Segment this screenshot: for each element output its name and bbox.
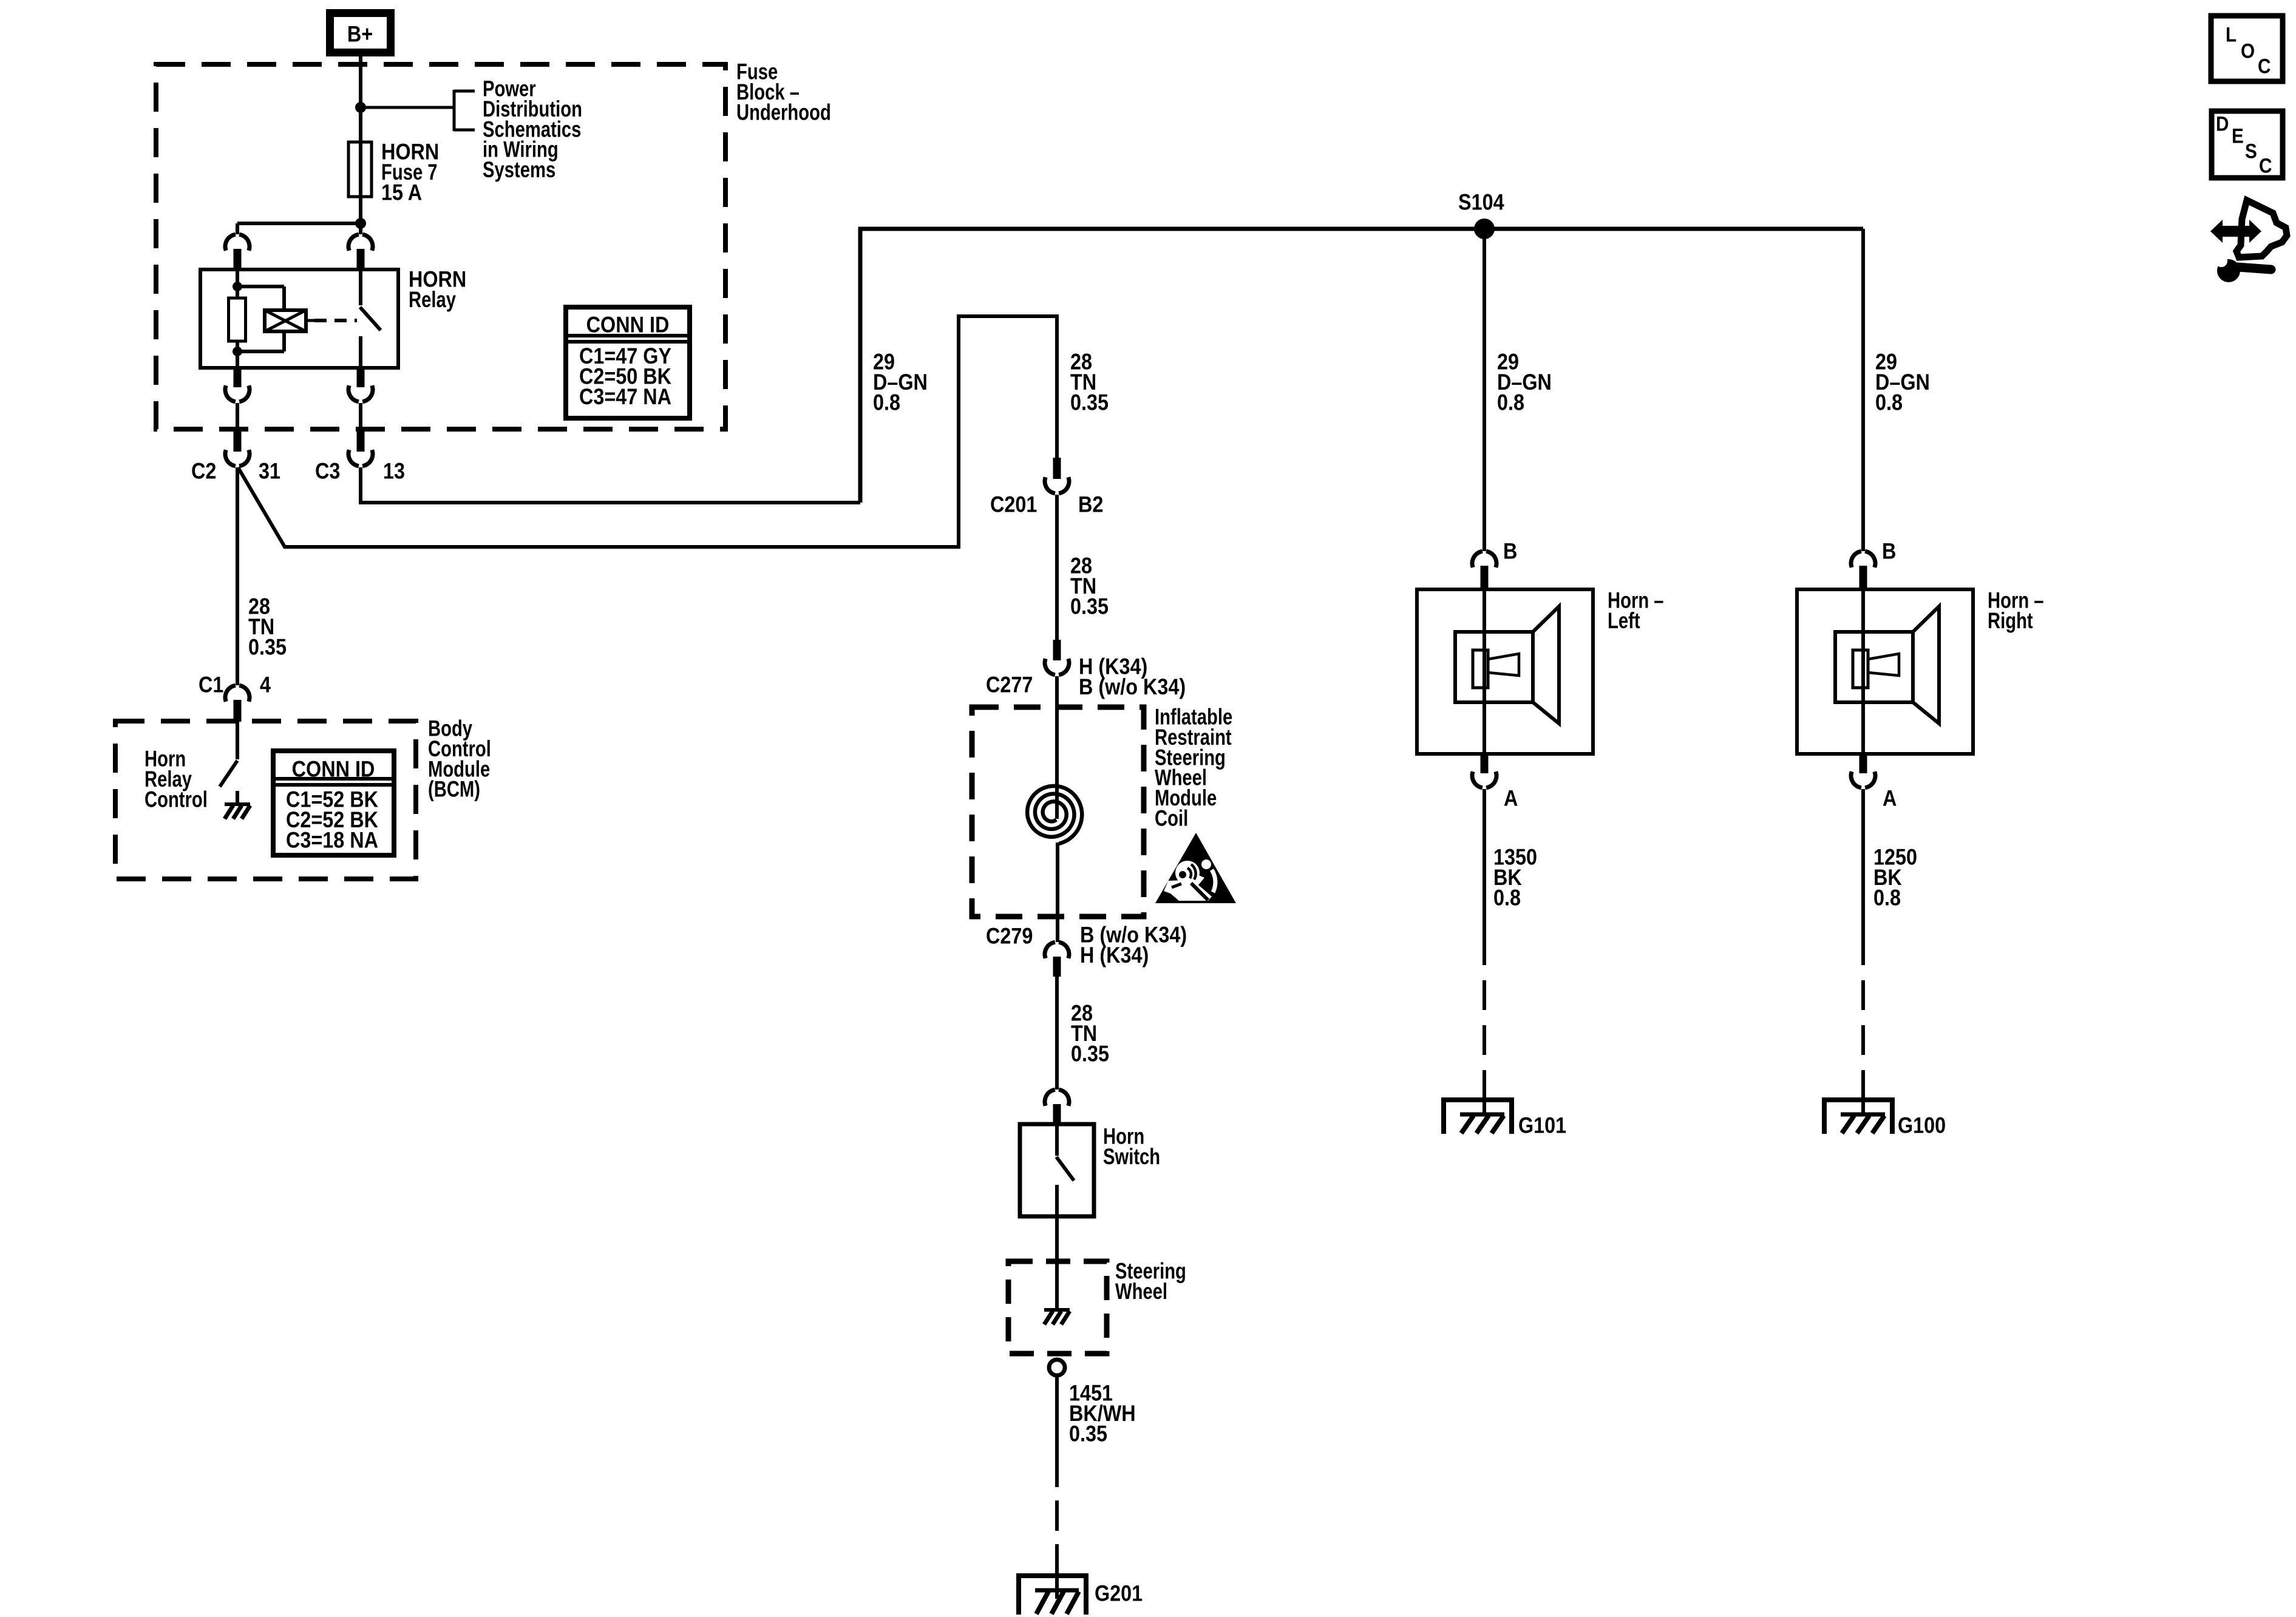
wire junction to relay coil branch xyxy=(237,223,361,234)
svg-text:G201: G201 xyxy=(1095,1582,1143,1606)
label C277 xyxy=(986,673,1033,697)
label Fuse Block - Underhood xyxy=(736,59,831,125)
icon wrench xyxy=(2215,255,2271,282)
label C3 xyxy=(315,459,340,484)
label pin A horn left xyxy=(1504,787,1518,811)
svg-text:B (w/o K34): B (w/o K34) xyxy=(1079,675,1186,699)
icon pointing glove outline xyxy=(2237,200,2287,257)
wire label 28 TN 0.35 (to horn switch) xyxy=(1071,1002,1109,1066)
svg-text:0.35: 0.35 xyxy=(248,635,287,659)
wire 1350 dashed to G101 xyxy=(1483,935,1486,1116)
junction node on B+ feed xyxy=(355,102,366,113)
svg-text:D: D xyxy=(2216,112,2229,135)
svg-text:G100: G100 xyxy=(1898,1114,1946,1138)
connector C277 xyxy=(1045,640,1069,675)
label pin B horn right xyxy=(1882,540,1896,564)
horn switch wire upper xyxy=(1055,1124,1059,1156)
svg-text:0.8: 0.8 xyxy=(1875,390,1903,415)
wire 1350 BK solid xyxy=(1483,789,1486,935)
horn switch wire lower xyxy=(1055,1185,1059,1309)
power distribution reference bracket xyxy=(454,90,475,131)
svg-text:B: B xyxy=(1882,540,1896,564)
wire C279 to horn switch xyxy=(1055,977,1059,1090)
label pin 31 xyxy=(259,459,280,484)
wire through horn left xyxy=(1483,589,1486,754)
svg-text:0.35: 0.35 xyxy=(1070,390,1109,415)
wire C201 to C277 xyxy=(1055,495,1059,640)
module inflatable restraint coil dashed box xyxy=(972,707,1144,917)
svg-text:E: E xyxy=(2232,124,2244,147)
svg-text:Wheel: Wheel xyxy=(1115,1280,1167,1304)
svg-text:S104: S104 xyxy=(1458,191,1504,215)
label pin 4 xyxy=(260,673,271,697)
wire label 28 TN 0.35 (to C201) xyxy=(1070,350,1109,415)
svg-text:C2: C2 xyxy=(191,459,216,484)
relay actuator dashed link xyxy=(314,319,357,322)
svg-text:0.8: 0.8 xyxy=(1497,390,1524,415)
icon double arrow xyxy=(2210,220,2261,243)
speaker symbol horn left xyxy=(1455,606,1559,724)
ground G201 xyxy=(1019,1576,1086,1615)
svg-text:L: L xyxy=(2226,22,2237,46)
wire label 29 D-GN 0.8 (riser) xyxy=(873,350,928,415)
connector horn right pin B xyxy=(1851,551,1875,590)
wire label 1250 BK 0.8 xyxy=(1873,846,1917,910)
label Power Distribution Schematics in Wiring Systems xyxy=(483,76,582,183)
connector C2 pin 31 xyxy=(225,431,250,466)
connector horn left pin B xyxy=(1472,551,1496,590)
connector C1 pin 4 xyxy=(225,685,250,722)
wire relay coil out to C2 xyxy=(236,403,239,431)
svg-text:B2: B2 xyxy=(1078,493,1103,517)
wire B+ down to fuse and relay arc xyxy=(359,56,362,234)
connector C279 xyxy=(1045,942,1069,977)
svg-text:Underhood: Underhood xyxy=(736,100,831,125)
terminal steering wheel splice circle xyxy=(1049,1360,1065,1375)
label pin B horn left xyxy=(1503,540,1517,564)
svg-text:0.8: 0.8 xyxy=(1493,886,1521,910)
svg-text:13: 13 xyxy=(383,459,405,484)
label pin A horn right xyxy=(1883,787,1897,811)
wire riser to main feed run xyxy=(860,229,1863,503)
label Horn Relay Control xyxy=(144,747,208,812)
svg-text:Systems: Systems xyxy=(483,158,555,183)
connector horn right pin A xyxy=(1851,754,1875,788)
label Horn - Left xyxy=(1608,588,1664,633)
label C279 xyxy=(986,924,1033,949)
ground BCM internal xyxy=(225,791,250,819)
label C1 xyxy=(199,673,223,697)
relay coil element xyxy=(265,310,306,331)
svg-text:B: B xyxy=(1503,540,1517,564)
svg-text:Switch: Switch xyxy=(1103,1145,1160,1170)
svg-text:C3=18 NA: C3=18 NA xyxy=(286,828,378,852)
svg-text:C: C xyxy=(2258,54,2271,77)
svg-text:C279: C279 xyxy=(986,924,1033,949)
junction node below fuse xyxy=(355,218,366,229)
svg-text:O: O xyxy=(2241,39,2255,62)
relay coil wire lower xyxy=(236,341,239,368)
svg-text:C3=47 NA: C3=47 NA xyxy=(579,385,671,409)
label Horn - Right xyxy=(1988,588,2044,633)
label G100 xyxy=(1898,1114,1946,1138)
label HORN Relay xyxy=(409,268,466,313)
relay coil actuator stub xyxy=(306,319,314,322)
connector relay coil bottom terminal xyxy=(225,368,250,402)
fuse HORN Fuse 7 15 A xyxy=(348,142,372,197)
svg-text:G101: G101 xyxy=(1518,1114,1566,1138)
power node B+ box xyxy=(330,13,391,53)
junction node relay coil bottom xyxy=(233,347,242,356)
label S104 xyxy=(1458,191,1504,215)
label G201 xyxy=(1095,1582,1143,1606)
speaker driver horn left xyxy=(1473,650,1488,688)
wire S104 down to horn left xyxy=(1483,229,1486,551)
label Steering Wheel xyxy=(1115,1259,1186,1304)
module BCM dashed box xyxy=(115,721,416,879)
label Inflatable Restraint Steering Wheel Module Coil xyxy=(1155,705,1232,831)
wire to power distribution reference xyxy=(361,106,454,109)
wire label 1451 BK/WH 0.35 xyxy=(1069,1381,1136,1446)
svg-text:C201: C201 xyxy=(990,493,1037,517)
relay switch fixed contact upper xyxy=(359,269,362,305)
wire label 29 D-GN 0.8 (horn right) xyxy=(1875,350,1930,415)
resistor relay suppression resistor xyxy=(229,298,246,341)
wire BCM internal upper xyxy=(236,722,239,759)
svg-text:C277: C277 xyxy=(986,673,1033,697)
speaker symbol horn right xyxy=(1835,606,1939,724)
wire relay switch out to C3 xyxy=(359,403,362,431)
svg-text:C3: C3 xyxy=(315,459,340,484)
label C2 xyxy=(191,459,216,484)
label Horn Switch xyxy=(1103,1124,1160,1169)
speaker small horn left xyxy=(1488,654,1519,676)
horn switch blade xyxy=(1056,1157,1074,1181)
svg-text:0.35: 0.35 xyxy=(1071,1042,1109,1066)
warning icon SIR triangle xyxy=(1155,833,1236,903)
connector horn left pin A xyxy=(1472,754,1496,788)
conn-id table fuse block xyxy=(566,307,690,418)
svg-text:15 A: 15 A xyxy=(381,180,422,205)
wire 28 TN 0.35 label (relay control) xyxy=(248,595,287,660)
speaker small horn right xyxy=(1868,654,1899,676)
horn right box xyxy=(1797,589,1973,754)
svg-text:Left: Left xyxy=(1608,609,1640,634)
svg-text:0.35: 0.35 xyxy=(1070,594,1109,619)
relay switch blade xyxy=(360,307,381,330)
wire 1451 solid segment xyxy=(1055,1375,1059,1457)
svg-text:Relay: Relay xyxy=(409,288,456,313)
connector relay switch terminal (top right) xyxy=(348,234,373,270)
connector relay switch bottom terminal xyxy=(348,368,373,402)
svg-text:B+: B+ xyxy=(347,22,373,47)
wire relay coil branch xyxy=(237,286,284,351)
relay HORN Relay box xyxy=(200,269,398,368)
label C279 pins B (w/o K34) H (K34) xyxy=(1080,923,1187,968)
icon DESC box xyxy=(2212,111,2283,178)
connector C3 pin 13 xyxy=(348,431,373,466)
label C201 xyxy=(990,493,1037,517)
label G101 xyxy=(1518,1114,1566,1138)
ground steering wheel internal xyxy=(1044,1310,1070,1324)
svg-text:4: 4 xyxy=(260,673,271,697)
fuse block underhood dashed box xyxy=(156,64,725,429)
svg-text:C1: C1 xyxy=(199,673,223,697)
svg-text:S: S xyxy=(2245,139,2257,162)
wire C277 into coil xyxy=(1055,676,1059,819)
wire into G201 xyxy=(1055,1554,1059,1599)
wire 1250 dashed to G100 xyxy=(1861,935,1865,1116)
ground G101 xyxy=(1444,1100,1512,1134)
connector relay coil terminal (top left) xyxy=(225,234,250,270)
svg-text:Coil: Coil xyxy=(1155,806,1188,831)
ground G100 xyxy=(1824,1100,1892,1134)
svg-text:0.8: 0.8 xyxy=(873,390,900,415)
horn left box xyxy=(1417,589,1593,754)
svg-text:A: A xyxy=(1883,787,1897,811)
wire through horn right xyxy=(1861,589,1865,754)
conn-id table BCM xyxy=(273,751,394,855)
label Body Control Module (BCM) xyxy=(428,716,491,802)
label pin 13 xyxy=(383,459,405,484)
connector C201 pin B2 xyxy=(1045,458,1069,493)
switch horn relay control driver blade xyxy=(220,761,237,787)
wire label 28 TN 0.35 (C201-C277) xyxy=(1070,554,1109,619)
wire C2 to C1 vertical xyxy=(236,467,239,685)
wire coil out to C279 xyxy=(1056,842,1059,942)
wire label 29 D-GN 0.8 (horn left) xyxy=(1497,350,1552,415)
svg-text:0.8: 0.8 xyxy=(1873,886,1901,910)
svg-text:Control: Control xyxy=(144,787,208,812)
svg-text:A: A xyxy=(1504,787,1518,811)
splice node S104 xyxy=(1474,219,1495,239)
label HORN Fuse 7 15 A xyxy=(381,140,439,205)
speaker driver horn right xyxy=(1853,650,1868,688)
wire 1451 dashed segment xyxy=(1055,1457,1059,1573)
wire 1250 BK solid xyxy=(1861,789,1865,935)
label C277 pins H (K34) B (w/o K34) xyxy=(1079,655,1186,700)
wire C3 down and right to riser xyxy=(361,467,860,503)
steering wheel dashed box xyxy=(1008,1261,1107,1354)
inductor steering wheel coil spiral xyxy=(1027,786,1082,844)
svg-text:H (K34): H (K34) xyxy=(1080,943,1149,968)
label pin B2 xyxy=(1078,493,1103,517)
wire label 1350 BK 0.8 xyxy=(1493,846,1537,910)
svg-text:CONN ID: CONN ID xyxy=(292,758,375,782)
relay switch fixed contact lower xyxy=(359,336,362,368)
svg-text:CONN ID: CONN ID xyxy=(586,313,670,337)
junction node relay coil top xyxy=(233,282,242,291)
wire feed down to horn right xyxy=(1861,229,1865,551)
connector horn switch terminal xyxy=(1045,1090,1069,1125)
icon LOC box xyxy=(2211,16,2283,81)
svg-text:0.35: 0.35 xyxy=(1069,1422,1107,1446)
svg-text:Right: Right xyxy=(1988,609,2033,634)
svg-text:C: C xyxy=(2259,154,2272,177)
switch Horn Switch box xyxy=(1020,1124,1094,1216)
svg-text:(BCM): (BCM) xyxy=(428,778,480,802)
svg-text:31: 31 xyxy=(259,459,280,484)
relay coil wire upper xyxy=(236,269,239,299)
wire C2 diagonal to BCM feed run xyxy=(238,316,1057,547)
